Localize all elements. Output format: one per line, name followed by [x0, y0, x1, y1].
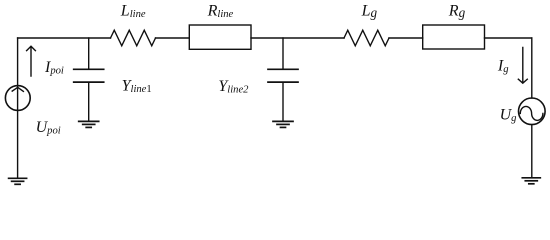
AC source Ug circle: [519, 98, 546, 125]
wire right vertical top: [531, 38, 533, 98]
svg-text:Upoi: Upoi: [36, 119, 61, 137]
wire Lg to Rg: [389, 37, 423, 39]
inductor Lg (zigzag): [344, 30, 389, 46]
ground under Yline1: [79, 121, 99, 127]
ground under Yline2: [273, 121, 293, 127]
inductor Lline (zigzag): [111, 30, 156, 46]
svg-text:Yline1: Yline1: [122, 78, 152, 95]
ground right (under Ug): [522, 178, 540, 184]
svg-text:Rline: Rline: [207, 3, 234, 20]
current source Upoi circle: [5, 86, 30, 111]
resistor Rline (box): [189, 25, 251, 49]
wire shunt 2 vertical bottom: [282, 83, 284, 121]
current source arrowhead: [12, 87, 23, 91]
svg-text:Ig: Ig: [497, 57, 509, 75]
capacitor Yline2: [268, 69, 298, 82]
wire right vertical bottom: [531, 125, 533, 178]
wire shunt 1 vertical top: [88, 38, 90, 69]
svg-text:Rg: Rg: [448, 3, 466, 21]
svg-text:Lg: Lg: [361, 3, 378, 21]
wire shunt 2 vertical top: [282, 38, 284, 69]
wire Lline to Rline: [156, 37, 190, 39]
wire shunt 1 vertical bottom: [88, 83, 90, 121]
svg-text:Ug: Ug: [500, 106, 517, 124]
svg-text:Ipoi: Ipoi: [44, 59, 64, 77]
svg-text:Lline: Lline: [120, 3, 146, 20]
AC source sine wave: [520, 106, 543, 120]
svg-text:Yline2: Yline2: [218, 78, 249, 95]
resistor Rg (box): [423, 25, 485, 49]
wire left vertical: [17, 38, 19, 178]
ground left (under Upoi): [9, 178, 27, 184]
arrow Ipoi (current arrow up): [27, 46, 36, 76]
arrow Ig (current arrow down): [518, 48, 527, 84]
capacitor Yline1: [74, 69, 104, 82]
wire Rline to Lg: [251, 37, 344, 39]
wire Rg to right corner: [485, 37, 532, 39]
wire top-left horizontal: [18, 37, 111, 39]
